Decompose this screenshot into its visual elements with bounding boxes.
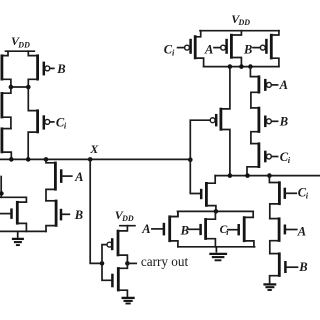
transistor N2 (NMOS, gate B) <box>46 200 83 232</box>
transistor N4 (inverter NMOS) <box>102 263 127 296</box>
transistor P13 (PMOS, gate Ci, right stack) <box>247 142 291 175</box>
svg-text:B: B <box>279 115 288 129</box>
svg-text:carry out: carry out <box>141 254 189 269</box>
transistor P9 (PMOS, gate B, top row) <box>243 31 279 67</box>
transistor N3 (NMOS, left, gate lead clipped at edge) <box>0 197 26 231</box>
wire pull-up internal rail (top-right block) <box>204 66 279 68</box>
ground right stack <box>263 284 276 290</box>
junction <box>248 64 253 69</box>
svg-text:B: B <box>298 260 307 274</box>
junction <box>26 85 31 90</box>
svg-text:A: A <box>297 224 306 238</box>
junction <box>214 209 219 214</box>
transistor N10 (NMOS, gate A, right stack) <box>270 217 306 253</box>
svg-text:A: A <box>279 78 288 92</box>
transistor N8 (NMOS, gate Ci, bottom row) <box>220 211 254 246</box>
svg-text:X: X <box>89 142 99 156</box>
VDD label top-right <box>231 12 250 27</box>
junction <box>228 64 233 69</box>
wire ground rail left block <box>0 230 46 232</box>
transistor P5 (PMOS, gate Ci) <box>28 87 67 159</box>
transistor P6 (inverter PMOS) <box>102 226 127 264</box>
junction <box>188 157 193 162</box>
junction carry-out node <box>125 261 130 266</box>
VDD label top-left <box>11 34 30 49</box>
junction <box>267 173 272 178</box>
junction <box>26 157 31 162</box>
svg-text:B: B <box>56 62 65 76</box>
wire node X horizontal <box>0 158 190 160</box>
transistor P3 (PMOS, left column row2, gate clipped at edge) <box>2 87 11 129</box>
junction <box>228 173 233 178</box>
svg-text:A: A <box>204 42 213 56</box>
junction <box>44 157 49 162</box>
transistor P12 (PMOS, gate B, right stack) <box>251 107 288 144</box>
wire clipped stub at left edge <box>0 177 2 198</box>
wire X net riser to P10/N5 gates <box>190 120 210 193</box>
ground left block <box>12 231 24 245</box>
VDD stub inverter <box>120 225 135 227</box>
junction <box>9 157 14 162</box>
wire NMOS row top rail <box>178 210 254 212</box>
svg-text:DD: DD <box>121 214 134 223</box>
svg-text:B: B <box>180 223 189 237</box>
transistor N1 (NMOS, gate A) <box>46 159 83 200</box>
VDD rail top-left <box>6 50 35 52</box>
svg-text:DD: DD <box>238 18 251 27</box>
junction nub at edge <box>0 191 4 195</box>
wire sum internal node rail <box>215 175 320 177</box>
wire node X to inverter input <box>90 159 102 263</box>
transistor P1 (PMOS, left column row1, gate clipped at edge) <box>2 51 11 87</box>
svg-text:B: B <box>243 42 252 56</box>
transistor N9 (NMOS, gate Ci, right stack) <box>269 176 308 219</box>
transistor P7 (PMOS, gate Ci, top row) <box>164 31 204 67</box>
transistor P11 (PMOS, gate A, right stack) <box>250 67 288 108</box>
transistor P4 (PMOS, left column row3, gate clipped at edge) <box>2 127 11 159</box>
wire NMOS row bottom rail <box>178 246 255 248</box>
junction <box>245 173 250 178</box>
svg-text:DD: DD <box>17 40 30 49</box>
junction <box>88 157 93 162</box>
transistor P2 (PMOS, gate B) <box>28 51 65 87</box>
svg-text:B: B <box>74 208 83 222</box>
transistor P8 (PMOS, gate A, top row) <box>204 31 241 67</box>
junction <box>239 64 244 69</box>
ground bottom row <box>209 247 227 260</box>
svg-text:A: A <box>74 170 83 184</box>
VDD label inverter <box>115 208 134 223</box>
junction inverter gate node <box>100 261 105 266</box>
ground inverter <box>122 298 135 304</box>
transistor N6 (NMOS, gate A, bottom row) <box>141 211 178 246</box>
junction <box>9 85 14 90</box>
transistor P10 (PMOS, gate driven by X) <box>210 67 230 176</box>
wire carry out lead <box>127 262 136 264</box>
svg-text:A: A <box>141 222 150 236</box>
wire internal row node (top-left block) <box>11 86 28 88</box>
transistor N11 (NMOS, gate B, right stack) <box>270 252 308 283</box>
transistor N7 (NMOS, gate B, bottom row) <box>180 211 216 246</box>
transistor N5 (NMOS, gate driven by X) <box>201 176 216 212</box>
VDD rail top-right <box>200 30 279 32</box>
